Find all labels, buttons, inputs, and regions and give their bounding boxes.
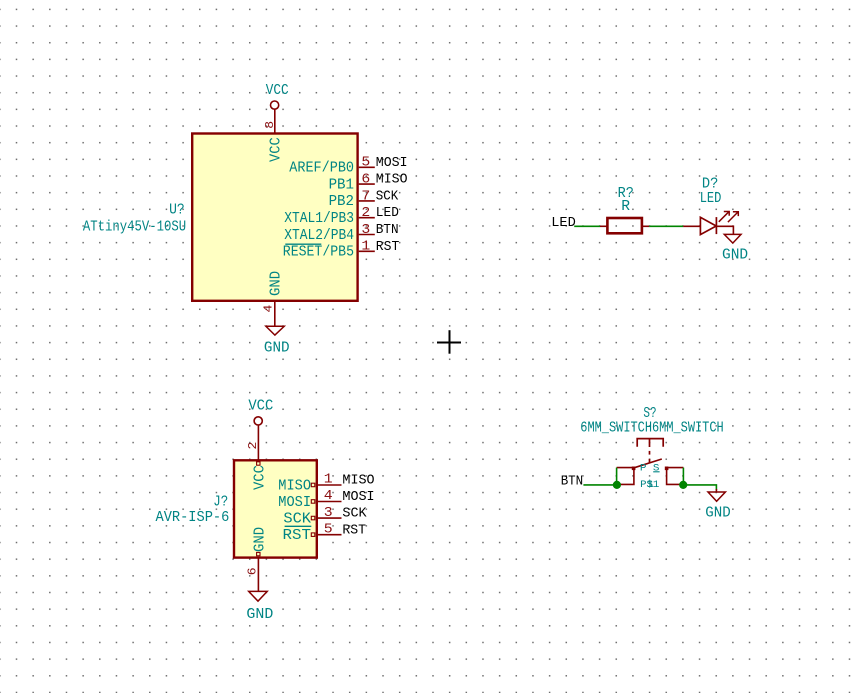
- pin 5 RST: [283, 522, 342, 544]
- LED arrow 1: [719, 212, 729, 222]
- pin 1 MISO: [278, 473, 341, 495]
- svg-text:3: 3: [324, 506, 333, 521]
- svg-text:4: 4: [261, 305, 275, 313]
- LED arrow 2: [728, 212, 738, 222]
- svg-text:GND: GND: [722, 248, 748, 264]
- svg-text:RST: RST: [342, 522, 366, 538]
- diode D? anode pin: [683, 225, 700, 227]
- svg-text:GND: GND: [253, 527, 269, 552]
- wire resistor to LED diode: [649, 225, 683, 227]
- svg-text:GND: GND: [264, 340, 290, 356]
- svg-text:MOSI: MOSI: [342, 489, 374, 505]
- svg-text:U?: U?: [169, 203, 185, 219]
- pin 2 inner square: [257, 462, 260, 465]
- pin 1 RESET/PB5: [283, 240, 375, 261]
- svg-text:XTAL2/PB4: XTAL2/PB4: [284, 228, 354, 244]
- pin 6 PB1: [329, 173, 375, 194]
- power flag VCC (J): [248, 399, 273, 425]
- svg-text:5: 5: [361, 156, 370, 171]
- pin name S underline: [653, 471, 659, 473]
- svg-text:VCC: VCC: [253, 465, 269, 490]
- cursor crosshair: [437, 330, 461, 354]
- svg-text:XTAL1/PB3: XTAL1/PB3: [284, 211, 354, 227]
- switch lever: [634, 459, 662, 468]
- resistor R? body: [607, 218, 642, 233]
- svg-text:RST: RST: [283, 528, 312, 544]
- pin 6 inner square: [257, 552, 260, 555]
- resistor R? right pin: [642, 225, 649, 227]
- connector J1 body: [234, 460, 317, 557]
- left contact dot: [632, 467, 636, 471]
- ground symbol (IC): [266, 326, 284, 335]
- switch actuator dashed link: [649, 451, 651, 463]
- junction left: [613, 481, 621, 489]
- svg-text:LED: LED: [376, 205, 399, 221]
- ground symbol (J): [249, 591, 268, 601]
- svg-text:LED: LED: [551, 215, 576, 231]
- resistor R? left pin: [600, 225, 607, 227]
- svg-text:MISO: MISO: [278, 478, 311, 494]
- svg-text:VCC: VCC: [266, 83, 289, 99]
- svg-text:VCC: VCC: [269, 137, 285, 162]
- wire BTN riser left: [616, 468, 618, 485]
- svg-text:GND: GND: [246, 607, 273, 623]
- svg-text:P: P: [640, 463, 647, 474]
- pin 4 MOSI: [278, 489, 341, 511]
- ground symbol (switch): [708, 492, 725, 501]
- svg-text:BTN: BTN: [561, 473, 584, 489]
- wire switch to ground: [683, 485, 716, 490]
- svg-text:MOSI: MOSI: [376, 155, 408, 171]
- svg-text:AVR-ISP-6: AVR-ISP-6: [156, 510, 230, 526]
- pin 6 GND wire (J): [257, 558, 259, 592]
- pin 7 PB2: [329, 189, 375, 210]
- svg-text:4: 4: [324, 489, 333, 504]
- svg-text:1: 1: [647, 479, 654, 491]
- diode cathode wire to ground: [716, 226, 733, 234]
- svg-text:R: R: [621, 199, 630, 215]
- ground stub (switch): [715, 489, 717, 492]
- pin 3 SCK: [283, 506, 341, 528]
- switch pin 1 stub: [617, 467, 634, 469]
- pin 4 GND wire: [274, 301, 276, 326]
- svg-text:6MM_SWITCH6MM_SWITCH: 6MM_SWITCH6MM_SWITCH: [580, 421, 723, 437]
- svg-text:VCC: VCC: [248, 399, 273, 415]
- svg-text:5: 5: [324, 522, 333, 537]
- pin 3 XTAL2/PB4: [284, 223, 375, 244]
- wire BTN to switch: [583, 484, 617, 486]
- svg-text:SCK: SCK: [376, 188, 399, 204]
- svg-text:ATtiny45V-10SU: ATtiny45V-10SU: [83, 220, 186, 236]
- diode D? cathode bar: [715, 217, 717, 234]
- svg-text:LED: LED: [700, 191, 722, 207]
- svg-text:2: 2: [246, 442, 260, 450]
- svg-text:6: 6: [246, 568, 260, 576]
- svg-text:J?: J?: [213, 495, 228, 511]
- svg-text:GND: GND: [269, 271, 285, 296]
- svg-text:1: 1: [324, 473, 333, 488]
- wire LED to resistor: [574, 225, 600, 227]
- wire riser right: [682, 468, 684, 485]
- diode D? triangle: [700, 217, 716, 234]
- IC U1 body: [192, 134, 357, 301]
- ground symbol (LED): [724, 234, 741, 243]
- wire VCC to pin 2: [257, 425, 259, 460]
- svg-text:RESET/PB5: RESET/PB5: [283, 245, 354, 261]
- svg-text:PB2: PB2: [329, 194, 354, 210]
- svg-text:MOSI: MOSI: [278, 495, 311, 511]
- switch actuator stem: [649, 439, 651, 447]
- svg-text:8: 8: [263, 121, 277, 129]
- svg-text:AREF/PB0: AREF/PB0: [289, 161, 354, 177]
- svg-text:2: 2: [361, 206, 370, 221]
- svg-text:SCK: SCK: [283, 511, 311, 527]
- svg-text:MISO: MISO: [342, 473, 374, 489]
- junction right: [679, 481, 687, 489]
- svg-text:6: 6: [361, 173, 370, 188]
- svg-text:RST: RST: [376, 239, 400, 255]
- svg-text:MISO: MISO: [376, 172, 408, 188]
- svg-text:3: 3: [361, 223, 370, 238]
- left contact leg: [617, 468, 634, 484]
- power flag VCC (IC): [266, 83, 289, 109]
- right contact leg: [667, 468, 684, 484]
- right contact dot: [665, 467, 669, 471]
- pin 5 AREF/PB0: [289, 156, 375, 177]
- switch pin 2 stub: [667, 467, 684, 469]
- svg-text:PB1: PB1: [329, 177, 354, 193]
- svg-text:GND: GND: [705, 506, 730, 522]
- svg-text:S: S: [653, 463, 660, 474]
- wire VCC to pin 8: [274, 109, 276, 133]
- svg-text:1: 1: [361, 240, 370, 255]
- pin 2 XTAL1/PB3: [284, 206, 375, 227]
- switch actuator bracket: [637, 439, 663, 447]
- svg-text:BTN: BTN: [376, 222, 399, 238]
- svg-text:SCK: SCK: [342, 506, 367, 522]
- svg-text:7: 7: [361, 189, 370, 204]
